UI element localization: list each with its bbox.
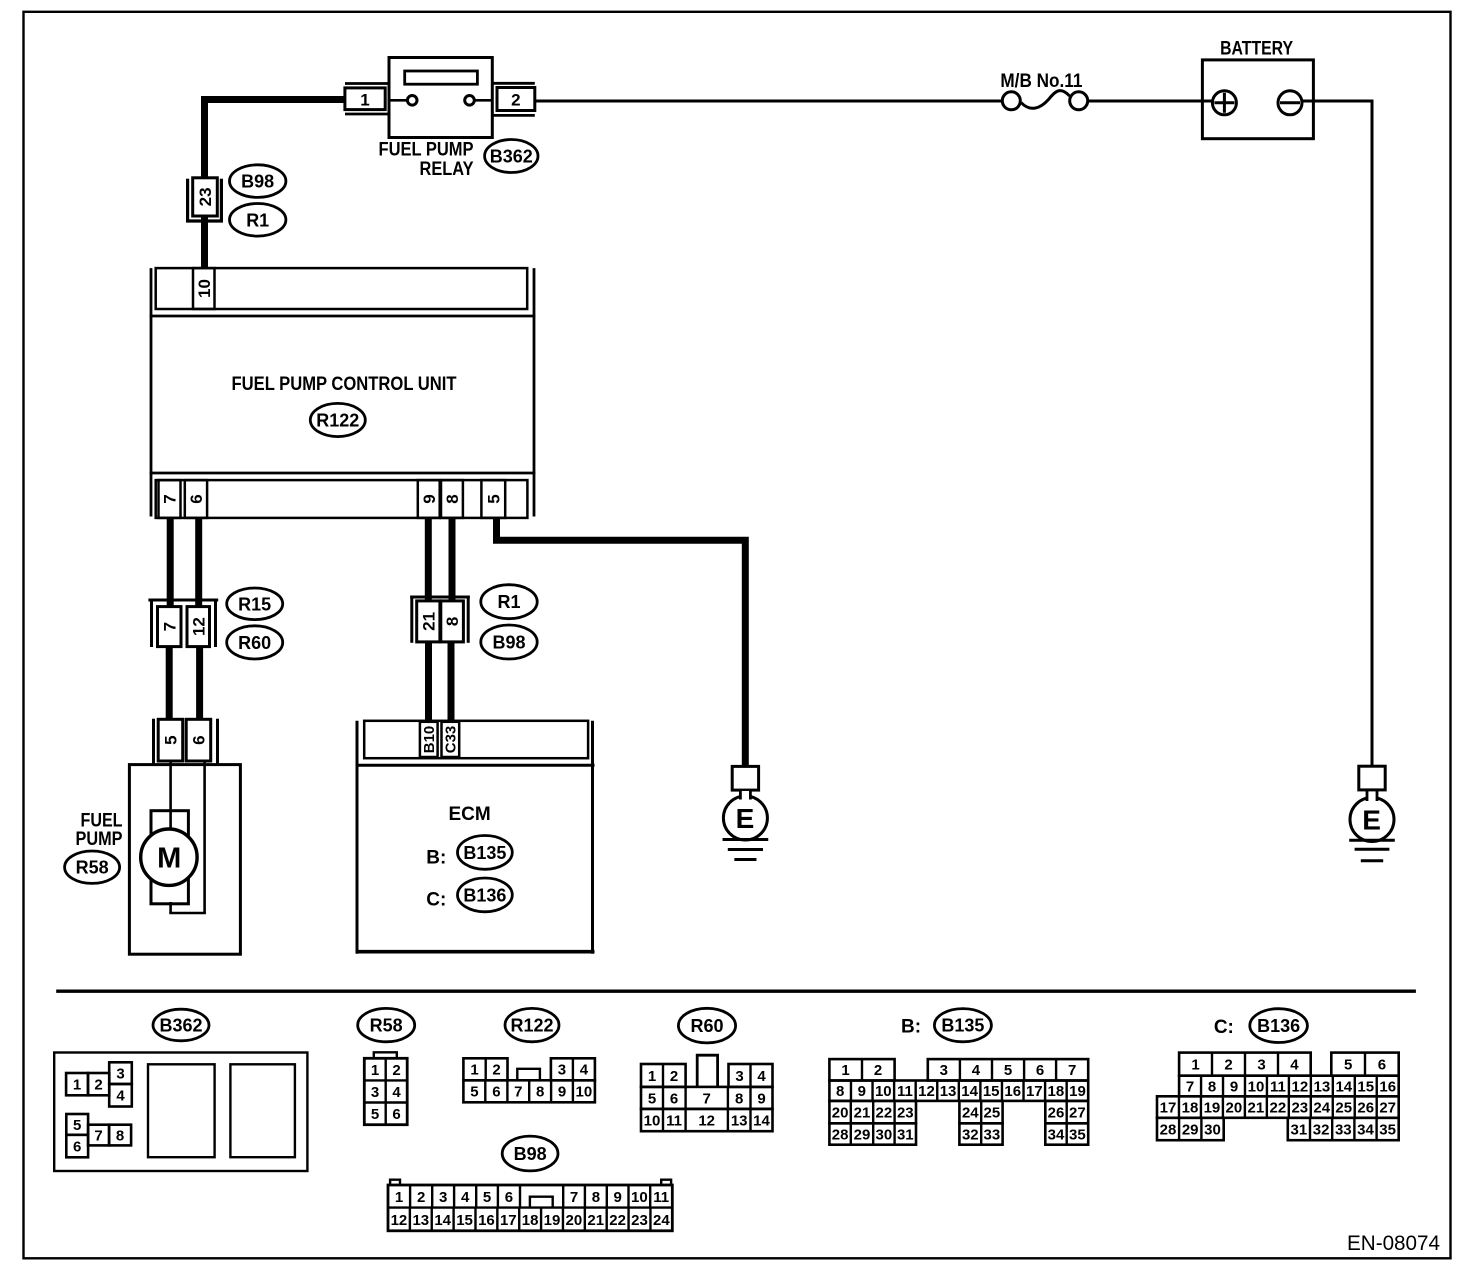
oval R58 (bottom): [358, 1008, 415, 1041]
svg-text:21: 21: [419, 612, 438, 631]
svg-text:6: 6: [492, 1084, 500, 1101]
B362 pin 7: [88, 1125, 109, 1146]
wire fuse to battery: [1088, 100, 1213, 103]
svg-text:28: 28: [832, 1126, 849, 1143]
svg-text:21: 21: [587, 1212, 604, 1229]
ECM box: [356, 721, 595, 954]
svg-text:35: 35: [1069, 1126, 1086, 1143]
connector B98 pinout: [388, 1180, 672, 1231]
svg-text:28: 28: [1160, 1121, 1177, 1138]
svg-text:22: 22: [876, 1105, 893, 1122]
svg-text:7: 7: [1186, 1078, 1194, 1095]
svg-text:8: 8: [116, 1128, 124, 1145]
svg-text:R1: R1: [497, 592, 520, 612]
svg-text:27: 27: [1379, 1099, 1396, 1116]
svg-text:32: 32: [962, 1126, 979, 1143]
motor M (fuel pump motor): [141, 761, 197, 913]
svg-text:6: 6: [187, 494, 206, 503]
control unit bottom pin row: [156, 480, 528, 518]
svg-text:1: 1: [371, 1062, 379, 1079]
svg-text:EN-08074: EN-08074: [1347, 1232, 1440, 1255]
wire relay pin2 to fuse M/B No.11: [535, 100, 1003, 103]
svg-text:4: 4: [116, 1088, 125, 1105]
svg-text:2: 2: [492, 1062, 500, 1079]
oval R15 (near connector 7/12): [227, 588, 283, 620]
svg-text:M/B No.11: M/B No.11: [1000, 71, 1082, 92]
svg-text:R1: R1: [246, 210, 269, 230]
relay pin 2: [493, 83, 535, 115]
svg-text:29: 29: [854, 1126, 871, 1143]
in-line connector 23 (B98/R1): [186, 178, 223, 221]
svg-text:B98: B98: [241, 172, 274, 192]
B362 pin 4: [109, 1084, 132, 1107]
svg-text:32: 32: [1313, 1121, 1330, 1138]
svg-text:R15: R15: [238, 594, 271, 614]
svg-text:B135: B135: [941, 1016, 984, 1036]
svg-text:R58: R58: [370, 1016, 403, 1036]
svg-text:8: 8: [443, 494, 462, 503]
svg-text:R60: R60: [690, 1016, 723, 1036]
svg-text:17: 17: [1026, 1083, 1043, 1100]
svg-text:14: 14: [1335, 1078, 1352, 1095]
svg-text:19: 19: [544, 1212, 561, 1229]
wire connector 23 to control unit pin 10 (thick): [201, 214, 208, 269]
svg-text:9: 9: [757, 1090, 765, 1107]
svg-text:20: 20: [1226, 1099, 1243, 1116]
svg-text:6: 6: [505, 1189, 513, 1206]
fuel pump box R58: [76, 765, 241, 955]
B362 pin 3: [109, 1062, 132, 1084]
svg-text:3: 3: [558, 1062, 566, 1079]
svg-text:23: 23: [1291, 1099, 1308, 1116]
svg-text:8: 8: [1208, 1078, 1216, 1095]
svg-text:12: 12: [918, 1083, 935, 1100]
ECM label C: B136: [426, 878, 512, 912]
wire pin9 to connector 21 (thick): [425, 517, 432, 602]
wire pin6 to connector 12 (thick): [195, 517, 202, 608]
svg-text:6: 6: [392, 1106, 400, 1123]
svg-text:1: 1: [1191, 1057, 1199, 1074]
svg-text:R58: R58: [76, 858, 109, 878]
svg-text:4: 4: [757, 1068, 766, 1085]
svg-text:26: 26: [1357, 1099, 1374, 1116]
ground E (battery side): [1349, 766, 1395, 861]
pin 6 (control unit bottom): [185, 480, 207, 518]
svg-text:1: 1: [73, 1077, 81, 1094]
svg-text:29: 29: [1182, 1121, 1199, 1138]
svg-text:10: 10: [576, 1084, 593, 1101]
svg-text:8: 8: [443, 617, 462, 626]
wire connector 8 to ECM C33 (thick): [448, 640, 455, 722]
svg-text:21: 21: [1248, 1099, 1265, 1116]
oval R60 (near connector 7/12): [227, 626, 283, 659]
svg-text:11: 11: [653, 1189, 669, 1206]
svg-text:11: 11: [666, 1112, 682, 1129]
B362 pin 8: [109, 1125, 131, 1146]
svg-text:6: 6: [73, 1139, 81, 1156]
ECM pin C33: [442, 722, 460, 757]
fuel pump control unit R122 box: [150, 268, 536, 516]
svg-text:7: 7: [570, 1189, 578, 1206]
svg-text:8: 8: [836, 1083, 844, 1100]
svg-text:5: 5: [1004, 1062, 1012, 1079]
svg-text:3: 3: [940, 1062, 948, 1079]
svg-text:12: 12: [698, 1112, 715, 1129]
svg-text:PUMP: PUMP: [76, 829, 123, 850]
svg-text:R122: R122: [316, 410, 359, 430]
oval R122 (control unit label): [310, 403, 365, 436]
svg-text:2: 2: [511, 91, 520, 110]
svg-text:24: 24: [962, 1105, 979, 1122]
fuse M/B No.11: [1000, 71, 1087, 110]
svg-text:17: 17: [500, 1212, 517, 1229]
svg-text:1: 1: [360, 91, 369, 110]
pin 9 (control unit bottom): [418, 480, 440, 518]
svg-text:2: 2: [417, 1189, 425, 1206]
wire battery negative to ground E (right): [1302, 101, 1372, 767]
svg-text:22: 22: [1269, 1099, 1286, 1116]
connector B362 pinout: [54, 1053, 307, 1172]
wire relay pin1 to connector 23 (thick): [205, 96, 346, 179]
svg-text:1: 1: [470, 1062, 478, 1079]
svg-text:34: 34: [1048, 1126, 1065, 1143]
svg-text:B:: B:: [901, 1017, 921, 1038]
in-line connector 21/8 (R1/B98): [410, 596, 470, 643]
svg-text:34: 34: [1357, 1121, 1374, 1138]
svg-text:15: 15: [1357, 1078, 1374, 1095]
oval R1 (near connector 23): [230, 204, 286, 237]
svg-text:4: 4: [580, 1062, 589, 1079]
svg-text:12: 12: [391, 1212, 408, 1229]
svg-text:24: 24: [1313, 1099, 1330, 1116]
ECM connector label C: B136 (bottom): [1214, 1009, 1308, 1043]
svg-text:5: 5: [470, 1084, 478, 1101]
svg-text:3: 3: [1257, 1057, 1265, 1074]
svg-text:30: 30: [876, 1126, 893, 1143]
svg-text:22: 22: [609, 1212, 626, 1229]
svg-text:10: 10: [875, 1083, 892, 1100]
B362 pin 1: [66, 1073, 88, 1095]
svg-text:2: 2: [392, 1062, 400, 1079]
svg-text:3: 3: [439, 1189, 447, 1206]
svg-text:R122: R122: [510, 1016, 553, 1036]
svg-text:8: 8: [592, 1189, 600, 1206]
svg-text:10: 10: [195, 279, 214, 298]
svg-text:4: 4: [461, 1189, 470, 1206]
wire connector 21 to ECM B10 (thick): [425, 640, 432, 722]
figure number EN-08074: [1347, 1232, 1440, 1255]
svg-text:33: 33: [984, 1126, 1001, 1143]
svg-text:7: 7: [160, 622, 179, 631]
svg-text:16: 16: [1379, 1078, 1396, 1095]
wire motor bottom stub: [169, 902, 172, 913]
svg-text:10: 10: [644, 1112, 661, 1129]
svg-text:6: 6: [190, 735, 209, 744]
svg-text:11: 11: [897, 1083, 913, 1100]
svg-text:7: 7: [94, 1128, 102, 1145]
pump pin 5: [158, 719, 183, 761]
svg-text:E: E: [1362, 805, 1381, 836]
svg-text:23: 23: [631, 1212, 648, 1229]
ECM connector label B: B135 (bottom): [901, 1009, 991, 1042]
svg-text:FUEL PUMP: FUEL PUMP: [379, 140, 474, 161]
svg-text:4: 4: [972, 1062, 981, 1079]
svg-text:5: 5: [73, 1117, 81, 1134]
oval B98 (bottom): [502, 1136, 558, 1171]
svg-text:10: 10: [1248, 1078, 1265, 1095]
svg-text:23: 23: [196, 187, 215, 206]
ECM pin row: [364, 721, 588, 758]
oval B98 (near connector 23): [230, 165, 286, 198]
control unit top pin row: [156, 268, 528, 309]
svg-text:3: 3: [371, 1084, 379, 1101]
svg-text:C:: C:: [426, 889, 446, 910]
svg-text:5: 5: [484, 494, 503, 503]
svg-text:FUEL PUMP CONTROL UNIT: FUEL PUMP CONTROL UNIT: [232, 374, 457, 395]
oval B98 (near connector 21/8): [481, 625, 537, 659]
battery: [1202, 39, 1313, 139]
ECM label B: B135: [426, 836, 512, 870]
svg-text:16: 16: [1004, 1083, 1021, 1100]
svg-text:12: 12: [1292, 1078, 1309, 1095]
svg-text:B135: B135: [463, 843, 506, 863]
svg-text:3: 3: [116, 1065, 124, 1082]
svg-text:B:: B:: [426, 848, 446, 869]
oval R60 (bottom): [678, 1008, 735, 1043]
svg-text:13: 13: [731, 1112, 748, 1129]
svg-text:24: 24: [653, 1212, 670, 1229]
svg-text:6: 6: [1378, 1057, 1386, 1074]
svg-text:31: 31: [1291, 1121, 1308, 1138]
pin 7 (control unit bottom): [159, 480, 181, 518]
svg-text:1: 1: [841, 1062, 849, 1079]
svg-text:20: 20: [566, 1212, 583, 1229]
pin 8 (control unit bottom): [441, 480, 463, 518]
svg-text:3: 3: [735, 1068, 743, 1085]
svg-text:18: 18: [1048, 1083, 1065, 1100]
svg-text:13: 13: [1313, 1078, 1330, 1095]
svg-text:2: 2: [94, 1077, 102, 1094]
wire pin7 to connector 7 (thick): [167, 517, 174, 608]
svg-text:14: 14: [753, 1112, 770, 1129]
ground E (ECM side): [723, 766, 769, 859]
svg-text:1: 1: [395, 1189, 403, 1206]
svg-text:1: 1: [648, 1068, 656, 1085]
svg-text:C33: C33: [443, 726, 460, 754]
svg-text:5: 5: [483, 1189, 491, 1206]
svg-text:15: 15: [983, 1083, 1000, 1100]
svg-text:19: 19: [1204, 1099, 1221, 1116]
svg-text:26: 26: [1048, 1105, 1065, 1122]
pin 5 (control unit bottom): [481, 480, 505, 518]
svg-text:13: 13: [940, 1083, 957, 1100]
pump connector 5/6 bracket: [154, 719, 218, 765]
svg-text:B98: B98: [514, 1144, 547, 1164]
connector R58 pinout: [364, 1052, 407, 1124]
wire motor bottom link: [169, 912, 206, 915]
svg-text:17: 17: [1160, 1099, 1177, 1116]
svg-text:B136: B136: [1257, 1016, 1300, 1036]
svg-text:18: 18: [522, 1212, 539, 1229]
svg-text:12: 12: [189, 617, 208, 636]
svg-text:35: 35: [1379, 1121, 1396, 1138]
in-line connector 7/12 (R15/R60): [148, 599, 218, 648]
oval R58 (pump label): [65, 851, 120, 883]
svg-text:5: 5: [1344, 1057, 1352, 1074]
wire pump pin5 to motor top: [169, 761, 172, 834]
svg-text:E: E: [736, 803, 755, 834]
oval R122 (bottom): [505, 1008, 559, 1041]
svg-text:27: 27: [1069, 1105, 1086, 1122]
svg-text:4: 4: [392, 1084, 401, 1101]
svg-text:14: 14: [961, 1083, 978, 1100]
svg-text:2: 2: [1224, 1057, 1232, 1074]
svg-text:10: 10: [631, 1189, 648, 1206]
svg-text:B362: B362: [490, 146, 533, 166]
svg-text:9: 9: [858, 1083, 866, 1100]
connector B135 pinout: [829, 1059, 1088, 1145]
svg-text:8: 8: [735, 1090, 743, 1107]
svg-text:6: 6: [670, 1090, 678, 1107]
svg-text:13: 13: [412, 1212, 429, 1229]
wire pin8 to connector 8 (thick): [449, 517, 456, 602]
svg-text:20: 20: [832, 1105, 849, 1122]
svg-text:15: 15: [456, 1212, 473, 1229]
wire connector 7 to pump pin 5 (thick): [166, 645, 173, 721]
svg-text:30: 30: [1204, 1121, 1221, 1138]
svg-text:21: 21: [854, 1105, 871, 1122]
svg-text:25: 25: [1335, 1099, 1352, 1116]
svg-text:2: 2: [670, 1068, 678, 1085]
svg-text:18: 18: [1182, 1099, 1199, 1116]
svg-text:23: 23: [897, 1105, 914, 1122]
svg-text:31: 31: [897, 1126, 914, 1143]
oval R1 (near connector 21/8): [481, 585, 537, 619]
svg-text:5: 5: [371, 1106, 379, 1123]
svg-text:4: 4: [1290, 1057, 1299, 1074]
svg-text:7: 7: [514, 1084, 522, 1101]
svg-text:B10: B10: [421, 726, 438, 754]
pin 10 (control unit top): [193, 268, 215, 309]
separator line: [56, 990, 1416, 993]
svg-text:7: 7: [1068, 1062, 1076, 1079]
svg-text:5: 5: [648, 1090, 656, 1107]
B362 pin 5: [66, 1114, 88, 1135]
svg-text:2: 2: [874, 1062, 882, 1079]
svg-text:6: 6: [1036, 1062, 1044, 1079]
svg-text:C:: C:: [1214, 1017, 1234, 1038]
connector R122 pinout: [463, 1058, 595, 1102]
oval B362 (bottom): [153, 1009, 209, 1041]
B362 pin 6: [66, 1135, 88, 1158]
svg-text:B98: B98: [492, 632, 525, 652]
svg-text:9: 9: [558, 1084, 566, 1101]
connector B136 pinout: [1157, 1053, 1399, 1141]
svg-text:9: 9: [1230, 1078, 1238, 1095]
svg-text:11: 11: [1270, 1078, 1286, 1095]
svg-text:33: 33: [1335, 1121, 1352, 1138]
svg-text:9: 9: [614, 1189, 622, 1206]
svg-text:8: 8: [536, 1084, 544, 1101]
svg-text:16: 16: [478, 1212, 495, 1229]
svg-text:5: 5: [162, 735, 181, 744]
svg-text:RELAY: RELAY: [420, 159, 474, 180]
svg-text:M: M: [157, 842, 181, 874]
svg-text:ECM: ECM: [448, 804, 490, 825]
svg-text:9: 9: [420, 494, 439, 503]
svg-text:BATTERY: BATTERY: [1220, 39, 1293, 60]
svg-text:7: 7: [703, 1090, 711, 1107]
ECM pin B10: [420, 722, 438, 757]
svg-text:R60: R60: [238, 633, 271, 653]
svg-text:19: 19: [1069, 1083, 1086, 1100]
wire pump pin6 to motor bottom: [203, 761, 206, 913]
pump pin 6: [186, 719, 211, 761]
svg-text:25: 25: [984, 1105, 1001, 1122]
svg-text:B136: B136: [463, 885, 506, 905]
svg-text:7: 7: [161, 494, 180, 503]
svg-text:14: 14: [434, 1212, 451, 1229]
connector R60 pinout: [641, 1055, 773, 1131]
relay pin 1: [345, 84, 389, 115]
wire connector 12 to pump pin 6 (thick): [196, 645, 203, 721]
svg-text:B362: B362: [159, 1015, 202, 1035]
B362 pin 2: [88, 1073, 109, 1095]
fuel pump relay B362: [379, 58, 493, 181]
oval B362 (relay label): [485, 140, 538, 173]
wire pin5 to ground E (thick): [497, 517, 746, 767]
